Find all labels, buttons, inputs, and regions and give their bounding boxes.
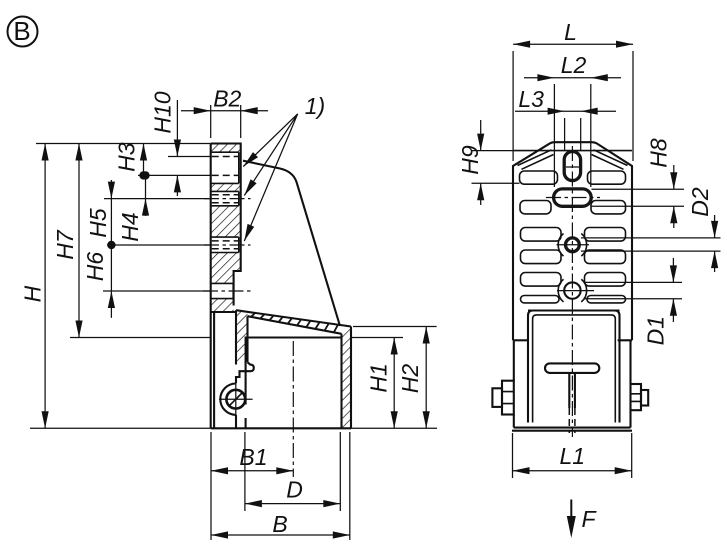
left nut block xyxy=(502,381,514,415)
hole D2 (bold circle) xyxy=(566,238,580,252)
lower rib edge to bottom xyxy=(235,415,237,429)
dimension D xyxy=(245,477,340,508)
D2 reference lines xyxy=(581,238,721,251)
fin slot row6 right xyxy=(587,296,626,303)
svg-text:H6: H6 xyxy=(82,252,108,282)
bottom extension verticals xyxy=(211,432,350,540)
wrap arc around D1 hole left xyxy=(558,279,563,302)
right nut block xyxy=(631,384,642,410)
svg-text:H: H xyxy=(20,285,46,302)
dimension B1 xyxy=(211,444,293,474)
right wall edges xyxy=(342,327,352,429)
dimension H5 xyxy=(85,180,116,249)
D2 crosshair xyxy=(557,244,590,246)
fin body bottom right xyxy=(618,339,632,341)
svg-text:H9: H9 xyxy=(457,145,483,175)
reference line hole3 center xyxy=(107,244,211,246)
dimension H3 xyxy=(113,142,147,179)
svg-text:L3: L3 xyxy=(518,86,544,112)
hook detail xyxy=(236,362,254,383)
D1 reference lines xyxy=(584,282,682,298)
hole 3 white cut xyxy=(210,237,239,252)
svg-text:D1: D1 xyxy=(643,316,669,345)
svg-text:H8: H8 xyxy=(646,138,672,168)
right nut flats xyxy=(631,394,642,402)
cavity edge lower stub xyxy=(245,418,247,428)
L3 slot inner tick xyxy=(566,166,579,168)
dimension H1 xyxy=(366,338,398,429)
hole 1 white cut xyxy=(210,152,239,183)
reference line hole4 center xyxy=(103,290,211,292)
left nut flats xyxy=(502,392,514,404)
fin slot row6 left xyxy=(521,296,560,303)
rib edges xyxy=(236,310,248,364)
svg-text:B: B xyxy=(272,511,287,537)
clamp shoe inner lines xyxy=(533,315,616,423)
hole 2 white cut xyxy=(210,191,239,205)
hole 2 edges xyxy=(211,191,239,205)
svg-text:H10: H10 xyxy=(150,91,176,133)
dimension D2 xyxy=(687,187,718,272)
hole 3 edges xyxy=(211,237,239,252)
fin body bottom line xyxy=(513,339,528,341)
plate bottom edge xyxy=(211,311,236,313)
slope top edge xyxy=(236,310,351,326)
svg-text:L1: L1 xyxy=(560,443,586,469)
lower body right edge xyxy=(629,340,631,427)
fin slot row5 left xyxy=(521,273,562,287)
hole 1 thread dashes xyxy=(212,157,239,176)
svg-text:L: L xyxy=(564,19,577,45)
svg-text:H3: H3 xyxy=(113,142,139,172)
H8 reference lines xyxy=(592,189,685,206)
svg-text:H4: H4 xyxy=(117,212,143,241)
svg-text:B2: B2 xyxy=(213,86,241,112)
note 1) leaders xyxy=(241,93,325,242)
fin slot row3 right xyxy=(585,228,626,242)
right screw tip xyxy=(641,390,648,406)
fin slot row2 right xyxy=(591,201,626,214)
fin slot row1 left xyxy=(520,171,558,184)
dimension H2 xyxy=(397,327,430,429)
svg-text:H5: H5 xyxy=(85,208,111,238)
fin slot row5 right xyxy=(585,273,626,287)
force arrow F xyxy=(567,500,598,539)
hole 3 thread dashes xyxy=(212,241,239,249)
reference line hole1 upper dash xyxy=(168,156,211,158)
dimension H8 xyxy=(646,138,678,228)
slotted hole L2 (bold) xyxy=(554,189,592,206)
svg-text:L2: L2 xyxy=(561,52,587,78)
svg-text:D2: D2 xyxy=(687,187,713,217)
dimension L1 xyxy=(513,433,632,478)
svg-text:B1: B1 xyxy=(239,444,267,470)
svg-text:H1: H1 xyxy=(366,363,392,392)
bottom reference extension line xyxy=(30,427,437,429)
sloped top band section hatch ticks xyxy=(251,313,338,332)
dimension H xyxy=(20,144,49,429)
svg-text:B: B xyxy=(13,16,30,46)
view label B badge xyxy=(8,16,38,47)
dimension B xyxy=(211,511,350,539)
body bottom line xyxy=(211,427,351,429)
svg-text:F: F xyxy=(582,506,598,532)
hatched mounting-plate section xyxy=(211,144,241,313)
svg-text:D: D xyxy=(286,477,303,503)
wrap arc around D2 hole right xyxy=(581,234,586,257)
slope band bottom edge xyxy=(248,316,342,334)
reference line hole2 center xyxy=(104,198,211,200)
hole 2 thread dashes xyxy=(212,195,239,203)
hole 4 edges xyxy=(211,283,234,298)
body outline with peaked top xyxy=(513,142,632,340)
bottom line lower xyxy=(512,430,632,432)
screw slash xyxy=(229,392,243,406)
screw circle xyxy=(226,390,245,409)
left screw tip xyxy=(492,388,502,407)
dimension H9 xyxy=(457,120,484,205)
plate outline xyxy=(211,144,241,429)
dimension L3 xyxy=(515,86,616,150)
top reference extension line xyxy=(36,143,211,145)
top ledge line xyxy=(513,150,632,152)
hole 2 centerline xyxy=(204,198,251,200)
hole 4 centerline xyxy=(203,290,251,292)
dimension L xyxy=(513,19,633,161)
dimension H4 xyxy=(117,171,150,242)
lower body left face xyxy=(213,312,215,428)
fin slot row4 right xyxy=(585,250,626,264)
rib section xyxy=(236,310,248,362)
fin slot row1 right xyxy=(588,171,626,184)
right gable slat xyxy=(592,150,628,170)
dimension B2 xyxy=(181,86,268,138)
svg-text:H2: H2 xyxy=(397,364,423,394)
shoe top body line xyxy=(528,309,620,311)
dimension L2 xyxy=(524,52,621,187)
hole D1 circle xyxy=(564,282,580,298)
dimension H10 xyxy=(150,91,182,196)
bottom line upper xyxy=(514,427,631,429)
screw crosshair xyxy=(219,384,253,415)
svg-text:1): 1) xyxy=(305,93,325,119)
T-slot stem dashed lower xyxy=(569,408,575,433)
svg-text:H7: H7 xyxy=(52,229,78,260)
fin slot row3 left xyxy=(521,228,562,242)
wrap arc around D2 hole left xyxy=(558,234,563,257)
dimension H6 xyxy=(82,245,115,318)
clamp shoe outer xyxy=(528,311,620,423)
T-slot horizontal oblong xyxy=(545,363,599,373)
reference line hole1 lower dash xyxy=(138,174,211,176)
H2 reference line xyxy=(353,326,437,328)
left gable slat xyxy=(518,150,554,170)
L2 horizontal centerline xyxy=(546,197,600,199)
screw boss semicircle xyxy=(220,384,236,415)
fin slot row4 left xyxy=(521,250,562,264)
bore centerline xyxy=(292,341,294,477)
clamp arm back profile xyxy=(243,161,340,326)
hole 3 centerline xyxy=(204,244,251,246)
fin slot row2 left xyxy=(520,201,551,214)
hole 1 edges xyxy=(211,152,239,183)
cavity top edge xyxy=(246,338,342,405)
lower body left edge xyxy=(513,340,515,427)
H1 reference line xyxy=(351,337,403,339)
right wall section xyxy=(342,329,352,428)
H9 reference lines xyxy=(472,151,520,184)
wrap arc around D1 hole right xyxy=(581,279,586,302)
dimension H7 xyxy=(52,144,83,338)
T-slot stem xyxy=(569,373,575,408)
D1 crosshair xyxy=(557,290,594,292)
hole 4 white cut xyxy=(210,283,234,298)
dimension D1 xyxy=(643,258,677,345)
slotted hole L3 (bold) xyxy=(564,152,580,181)
vertical centerline xyxy=(571,146,573,437)
H7 bottom reference line xyxy=(70,337,211,339)
